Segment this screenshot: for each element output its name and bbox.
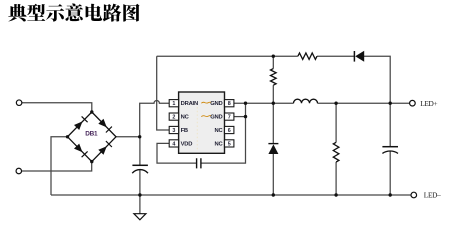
bridge diode UL arrow [74,121,83,130]
node bus [138,135,141,138]
title 典型示意电路图 [8,4,139,22]
op-amp U1 body [179,92,225,153]
node left vertex [66,135,69,138]
bridge diode LR arrow [98,146,107,155]
wire bus down to C1 [139,137,141,165]
wire pin8 to inductor [234,102,294,104]
pin 1 box [169,100,178,107]
bridge diode LR bar [106,141,112,147]
svg-text:1: 1 [172,101,175,107]
node mid rail C2 [389,102,392,105]
wire top rail right [364,56,390,146]
wire input bottom [22,162,92,171]
pin 8 box [225,100,234,107]
wire top rail mid [317,55,354,57]
resistor R1 [298,53,317,59]
node mid rail R2 [334,102,337,105]
bridge diode LL bar [82,151,88,157]
diode D2 triangle [268,144,278,154]
svg-text:NC: NC [215,141,224,147]
terminal LED- [411,192,417,198]
wire ground stem [139,195,141,214]
ground [134,214,146,220]
svg-text:LED–: LED– [424,190,441,199]
bridge DB1 diamond [68,112,117,162]
wire R2 top [335,103,337,142]
capacitor C1 curved plate [132,170,148,174]
pin 2 box [169,113,178,120]
diode D1 triangle [355,51,364,62]
terminal AC bottom [16,168,22,174]
node pin7 [244,115,247,118]
pin 4 box [169,140,178,147]
wire C3 to GND pins [201,103,246,163]
wire VDD loop [157,143,197,163]
svg-text:NC: NC [181,115,190,121]
net stub dashed [196,107,198,150]
wire D2 to bottom rail [272,154,274,195]
terminal LED+ [410,100,416,106]
resistor R3 [271,69,277,86]
wire resistor to mid rail [272,85,274,103]
pin 3 box [169,126,178,133]
wire left vertex to bottom rail [51,137,68,195]
svg-text:NC: NC [215,128,224,134]
wire FB from top rail [157,56,170,130]
node bottom rail D2 [272,193,275,196]
wire input top [22,103,92,112]
wire mid rail to D2 [272,103,274,143]
wire bus to DRAIN with hop [140,101,170,137]
svg-text:7: 7 [228,115,231,121]
svg-text:4: 4 [172,141,175,147]
wire top rail left [157,55,298,57]
pin 7 box [225,113,234,120]
net squiggle GND7 [201,116,211,117]
wire pin7 [234,116,246,118]
resistor R2 [333,142,339,162]
svg-text:GND: GND [210,115,222,121]
node bottom rail C2 [389,193,392,196]
node mid rail R3 [272,102,275,105]
node ground [138,193,141,196]
capacitor C1 plate [132,164,148,166]
node top rail R3 [272,55,275,58]
bridge diode LL arrow [74,144,83,153]
capacitor C2 plate [382,146,398,148]
svg-text:GND: GND [210,101,222,107]
node bottom rail R2 [334,193,337,196]
wire shunt chain top [272,56,274,68]
svg-text:DB1: DB1 [85,131,98,138]
wire bottom rail [51,194,411,196]
pin 6 box [225,126,234,133]
svg-text:DRAIN: DRAIN [181,101,198,107]
wire bridge output [116,136,140,138]
net squiggle GND8 [201,102,211,103]
capacitor C3 plates [197,158,201,168]
wire R2 bottom [335,162,337,195]
node bottom vertex [90,160,93,163]
diode D1 bar [353,51,355,62]
svg-text:8: 8 [228,101,231,107]
inductor L1 [294,99,318,103]
svg-text:3: 3 [172,128,175,134]
svg-text:2: 2 [172,115,175,121]
node gnd rail top [244,102,247,105]
terminal AC top [16,100,22,106]
node top vertex [90,110,93,113]
svg-text:5: 5 [228,141,231,147]
svg-text:FB: FB [181,128,188,134]
wire inductor to LED+ [318,102,410,104]
svg-text:6: 6 [228,128,231,134]
pin 5 box [225,140,234,147]
bridge diode UL bar [82,116,88,122]
svg-text:VDD: VDD [181,141,193,147]
wire C1 to bottom rail [139,170,141,195]
bridge diode UR bar [106,127,112,133]
bridge diode UR arrow [98,119,107,128]
wire C2 to bottom rail [389,152,391,196]
svg-text:LED+: LED+ [420,99,437,108]
capacitor C2 curved plate [382,151,398,153]
diode D2 bar [268,143,278,145]
